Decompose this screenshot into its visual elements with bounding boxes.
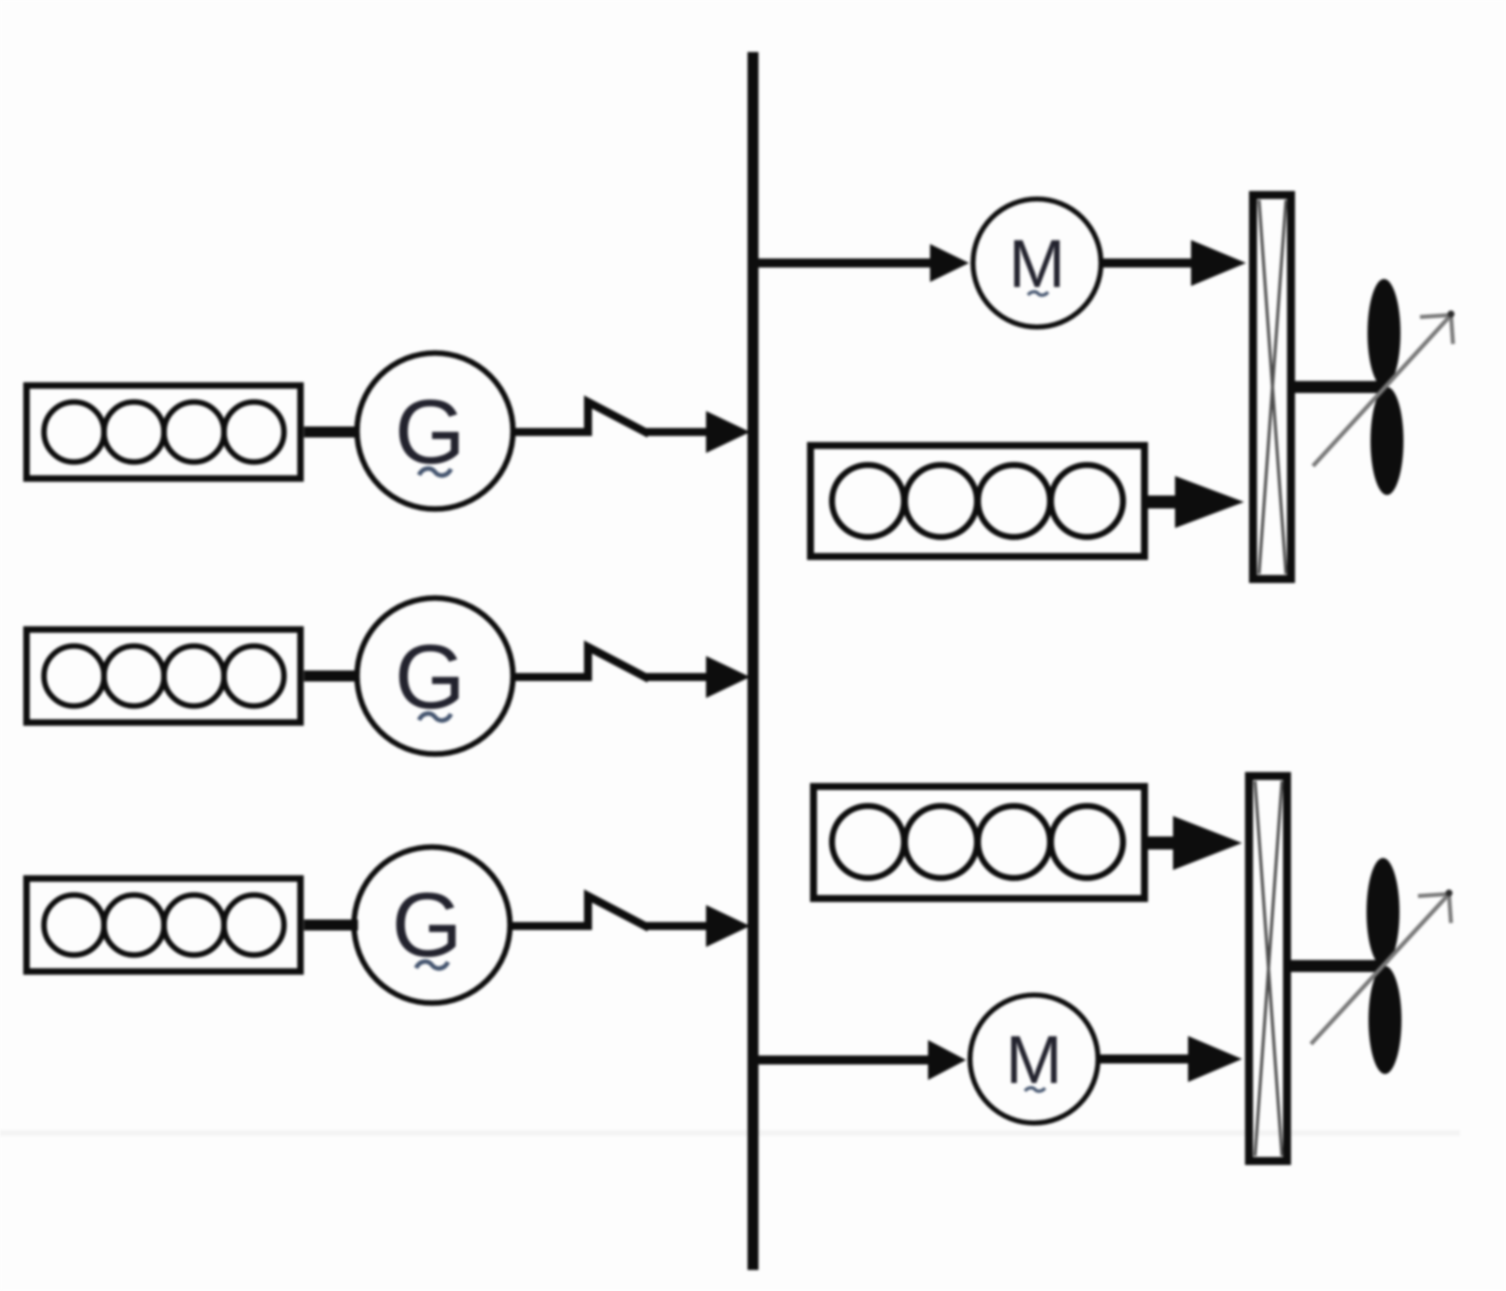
svg-text:M: M — [1009, 226, 1066, 302]
svg-text:M: M — [1006, 1022, 1063, 1098]
